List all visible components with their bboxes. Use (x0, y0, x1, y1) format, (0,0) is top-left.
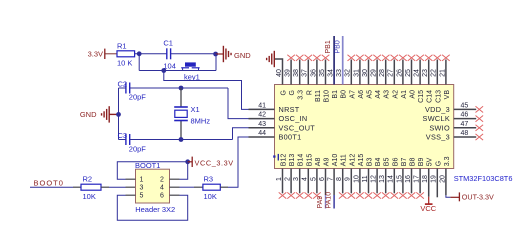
svg-text:3.3: 3.3 (298, 90, 305, 100)
svg-text:A15: A15 (358, 154, 365, 167)
svg-text:20pF: 20pF (129, 144, 147, 153)
svg-text:NRST: NRST (279, 105, 300, 114)
part origin marker (273, 155, 275, 157)
svg-text:10K: 10K (204, 192, 217, 201)
svg-text:4: 4 (160, 184, 164, 191)
svg-text:41: 41 (258, 102, 266, 109)
wire (119, 87, 126, 89)
svg-text:C15: C15 (418, 90, 425, 103)
svg-text:OSC_IN: OSC_IN (279, 114, 308, 123)
connector P1 (Header 3X2) (136, 169, 170, 203)
wire (171, 53, 216, 55)
svg-text:A12: A12 (349, 154, 356, 167)
svg-text:C3: C3 (118, 131, 128, 140)
svg-text:3.3V: 3.3V (88, 49, 103, 58)
port VCC_3.3V (191, 157, 193, 167)
ground (216, 53, 224, 55)
wire (215, 54, 217, 71)
U1 pin 45 (VDD_3) with no-connect X (454, 108, 477, 110)
U1 pin 46 (SWCLK) with no-connect X (454, 118, 477, 120)
svg-text:5V: 5V (427, 157, 434, 166)
U1 pin 48 (VSS_3) with no-connect X (454, 136, 477, 138)
svg-text:B5: B5 (384, 158, 391, 167)
svg-text:B4: B4 (375, 158, 382, 167)
U1 pin 47 (SWIO) with no-connect X (454, 127, 477, 129)
wire (446, 195, 451, 197)
svg-text:A5: A5 (367, 90, 374, 99)
svg-text:GND: GND (80, 110, 97, 119)
svg-text:R1: R1 (117, 41, 127, 50)
wire (130, 87, 228, 89)
wire (105, 53, 117, 55)
svg-text:VB: VB (444, 90, 451, 100)
wire (228, 88, 275, 119)
svg-text:BOOT1: BOOT1 (135, 161, 160, 170)
svg-text:VDD_3: VDD_3 (425, 105, 450, 114)
U1 pin 43 (VSC_OUT) (249, 127, 275, 129)
wire (220, 186, 228, 188)
svg-text:A4: A4 (375, 90, 382, 99)
svg-text:B11: B11 (315, 90, 322, 102)
svg-text:3.3: 3.3 (444, 156, 451, 166)
svg-text:B0: B0 (341, 90, 348, 99)
svg-text:B12: B12 (281, 154, 288, 167)
svg-text:PB0: PB0 (334, 40, 341, 53)
svg-text:VCC: VCC (420, 204, 436, 213)
svg-text:45: 45 (461, 102, 469, 109)
svg-text:10 K: 10 K (117, 58, 132, 67)
svg-text:B9: B9 (418, 158, 425, 167)
IC U1 STM32F103C8T6 body (275, 85, 454, 169)
svg-text:2: 2 (160, 176, 164, 183)
svg-text:STM32F103C8T6: STM32F103C8T6 (454, 174, 513, 183)
svg-text:C1: C1 (163, 38, 173, 47)
svg-text:PA10: PA10 (326, 192, 333, 209)
svg-text:PB1: PB1 (325, 40, 332, 53)
svg-text:B15: B15 (306, 154, 313, 167)
resistor R1 (117, 51, 135, 57)
node A (137, 51, 142, 56)
svg-text:B14: B14 (298, 154, 305, 167)
svg-text:B8: B8 (410, 158, 417, 167)
svg-text:A0: A0 (410, 90, 417, 99)
svg-text:46: 46 (461, 112, 469, 119)
svg-text:A8: A8 (315, 158, 322, 167)
node E (116, 112, 121, 117)
wire (101, 186, 109, 188)
node F (179, 137, 184, 142)
svg-text:C14: C14 (427, 90, 434, 103)
wire (126, 178, 136, 180)
svg-text:B7: B7 (401, 158, 408, 167)
svg-text:47: 47 (461, 121, 469, 128)
switch key1 (182, 68, 184, 71)
svg-text:SWCLK: SWCLK (423, 114, 450, 123)
svg-text:key1: key1 (184, 72, 200, 81)
wire (233, 128, 275, 140)
svg-text:A1: A1 (401, 90, 408, 99)
svg-text:C13: C13 (435, 90, 442, 103)
svg-text:B10: B10 (324, 90, 331, 103)
node B (213, 52, 218, 57)
capacitor C3 (125, 134, 127, 145)
capacitor C2 (125, 83, 127, 94)
wire (126, 194, 136, 196)
svg-text:44: 44 (258, 130, 266, 137)
svg-text:GND: GND (234, 51, 251, 60)
resistor R3 (203, 184, 220, 190)
node C (161, 68, 166, 73)
svg-text:3: 3 (140, 184, 144, 191)
svg-text:VCC_3.3V: VCC_3.3V (195, 158, 234, 167)
svg-text:BOOT0: BOOT0 (34, 178, 64, 187)
port OUT-3.3V (450, 196, 459, 198)
wire (130, 139, 233, 141)
svg-text:G: G (289, 90, 296, 95)
svg-text:A7: A7 (349, 90, 356, 99)
svg-text:C2: C2 (118, 79, 128, 88)
svg-text:OUT-3.3V: OUT-3.3V (462, 193, 494, 202)
svg-text:PA9: PA9 (317, 196, 324, 209)
svg-text:A3: A3 (384, 90, 391, 99)
svg-text:VSS_3: VSS_3 (426, 133, 450, 142)
wire (138, 54, 140, 71)
svg-text:X1: X1 (191, 105, 200, 114)
power VCC (428, 197, 430, 204)
ground (273, 51, 275, 67)
port 3.3V (104, 49, 106, 59)
svg-text:SWIO: SWIO (429, 123, 450, 132)
wire (135, 53, 167, 55)
svg-text:G: G (281, 90, 288, 95)
svg-text:A9: A9 (324, 158, 331, 167)
svg-text:B3: B3 (367, 158, 374, 167)
crystal X1 (180, 88, 182, 107)
U1 pin 42 (OSC_IN) (249, 118, 275, 120)
svg-text:B13: B13 (289, 154, 296, 167)
U1 pin 44 (B00T1) (249, 136, 275, 138)
svg-text:1: 1 (140, 176, 144, 183)
svg-text:Header 3X2: Header 3X2 (135, 205, 175, 214)
svg-text:48: 48 (461, 130, 469, 137)
svg-text:R2: R2 (83, 175, 93, 184)
svg-text:B6: B6 (392, 158, 399, 167)
node G (185, 159, 190, 164)
node D (179, 86, 184, 91)
svg-text:8MHz: 8MHz (191, 116, 211, 125)
wire (164, 71, 275, 110)
svg-text:B00T1: B00T1 (279, 133, 302, 142)
svg-text:A6: A6 (358, 90, 365, 99)
svg-text:VSC_OUT: VSC_OUT (279, 123, 316, 132)
svg-text:R3: R3 (204, 175, 214, 184)
svg-text:A11: A11 (341, 154, 348, 166)
svg-text:5: 5 (140, 192, 144, 199)
svg-text:G: G (435, 161, 442, 166)
svg-text:10K: 10K (83, 192, 96, 201)
resistor R2 (81, 184, 101, 190)
capacitor C1 (166, 48, 168, 59)
svg-text:B1: B1 (332, 90, 339, 99)
svg-text:A2: A2 (392, 90, 399, 99)
wire (170, 186, 180, 188)
svg-text:20pF: 20pF (129, 92, 147, 101)
svg-text:A10: A10 (332, 154, 339, 167)
wire (119, 139, 126, 141)
svg-text:43: 43 (258, 121, 266, 128)
wire (30, 186, 73, 188)
svg-text:R: R (306, 90, 313, 95)
svg-text:42: 42 (258, 112, 266, 119)
U1 pin 41 (NRST) (249, 108, 275, 110)
wire (139, 70, 216, 72)
svg-text:6: 6 (160, 192, 164, 199)
wire (118, 88, 120, 140)
